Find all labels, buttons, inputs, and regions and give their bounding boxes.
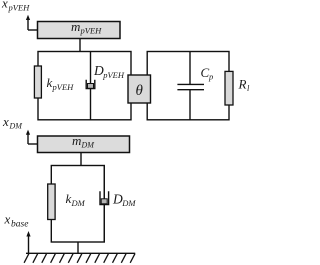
electrical loop wire xyxy=(147,52,229,120)
svg-text:θ: θ xyxy=(136,83,144,99)
wire m_pVEH to frame xyxy=(79,39,81,52)
svg-text:DM: DM xyxy=(81,140,96,149)
svg-text:x: x xyxy=(1,0,8,11)
wire DM frame to ground xyxy=(77,242,79,253)
svg-text:x: x xyxy=(4,211,11,226)
svg-text:pVEH: pVEH xyxy=(52,82,75,92)
svg-text:p: p xyxy=(208,72,213,82)
svg-text:m: m xyxy=(71,19,80,34)
capacitor Cp xyxy=(177,52,204,120)
svg-text:pVEH: pVEH xyxy=(8,3,31,13)
svg-text:pVEH: pVEH xyxy=(102,70,125,80)
spring k_pVEH xyxy=(34,66,41,98)
mass m_DM xyxy=(38,136,130,153)
pVEH frame wire xyxy=(38,52,131,120)
damper D_pVEH xyxy=(86,52,95,120)
spring k_DM xyxy=(48,184,55,220)
svg-text:DM: DM xyxy=(71,198,86,208)
svg-text:m: m xyxy=(72,133,81,148)
arrow x_base xyxy=(28,236,30,254)
resistor Rl xyxy=(225,71,233,105)
wire arrow to mass m_DM xyxy=(28,143,38,145)
mass m_pVEH xyxy=(38,22,121,39)
svg-text:DM: DM xyxy=(121,198,136,208)
svg-text:base: base xyxy=(11,220,28,230)
svg-text:pVEH: pVEH xyxy=(80,26,103,36)
arrow x_pVEH xyxy=(27,19,29,31)
ground xyxy=(24,253,135,262)
arrow x_DM xyxy=(27,134,29,145)
svg-text:x: x xyxy=(2,114,9,129)
wire arrow to mass m_pVEH xyxy=(28,29,38,31)
DM frame wire xyxy=(51,166,104,243)
svg-text:DM: DM xyxy=(9,122,24,131)
transducer theta U1 xyxy=(128,75,151,103)
svg-text:R: R xyxy=(238,77,247,92)
damper D_DM xyxy=(100,166,109,243)
wire m_DM to DM frame xyxy=(80,153,82,166)
